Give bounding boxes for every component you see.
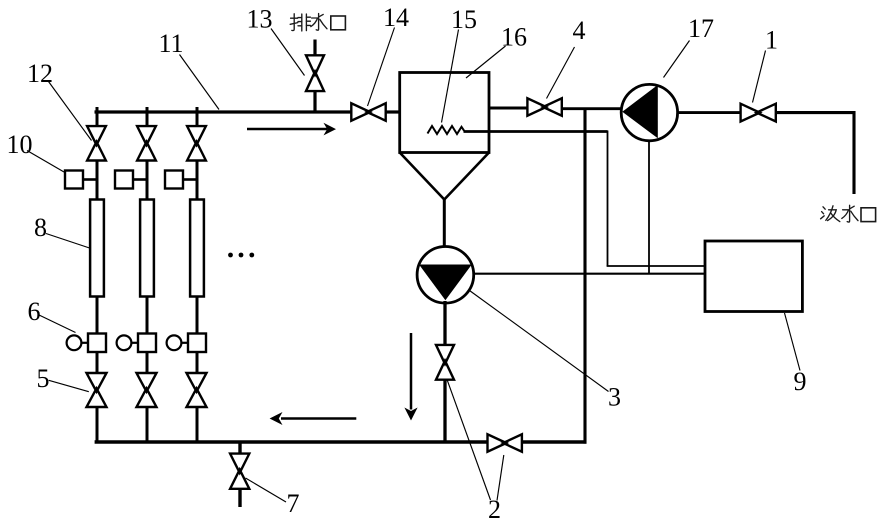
- svg-text:17: 17: [688, 14, 714, 43]
- flow tube 8 (branch 2): [140, 200, 154, 297]
- sensor 6 square (branch 1): [88, 334, 106, 353]
- heater 15 (zigzag element): [428, 126, 465, 134]
- sensor 6 circle (branch 3): [167, 335, 182, 350]
- svg-text:1: 1: [765, 26, 778, 55]
- sensor 6 connector (branch 3): [182, 342, 189, 344]
- svg-text:16: 16: [501, 23, 527, 52]
- wire: branch 1 below sensor: [96, 352, 99, 374]
- label 7 leader: [246, 478, 287, 502]
- wire: valve down to return pipe: [443, 380, 446, 444]
- wire: branch 2 lower drop: [146, 407, 149, 444]
- wire: square 10 connector (branch 2): [133, 178, 147, 181]
- sensor 6 connector (branch 1): [82, 342, 89, 344]
- svg-text:9: 9: [794, 367, 807, 396]
- wire: pump 2 down to valve: [443, 301, 446, 346]
- text: suction port 汲水口: [821, 205, 876, 222]
- wire: main top supply pipe 11: [95, 110, 352, 113]
- svg-text:14: 14: [383, 3, 409, 32]
- text: drain port 排水口: [290, 14, 345, 31]
- label 3 leader: [470, 291, 609, 392]
- wire: drain stub above valve 13: [313, 40, 316, 57]
- label 2 leaders: [447, 380, 491, 501]
- svg-text:15: 15: [451, 5, 477, 34]
- wire: pump 2 control line to controller (lower): [474, 273, 706, 275]
- wire: branch 2 between valve and tube: [146, 160, 149, 200]
- wire: intake pipe to suction port: [776, 113, 854, 194]
- valve 5 (branch 2): [137, 373, 157, 407]
- valve (branch 2 top, item 12): [137, 126, 156, 160]
- valve (branch 3 top, item 12): [187, 126, 206, 160]
- svg-text:11: 11: [159, 29, 184, 58]
- label 6 leader: [38, 315, 76, 333]
- valve 4: [527, 98, 561, 115]
- instrument square 10 (branch 3): [165, 171, 183, 189]
- wire: valve 13 to top pipe: [313, 91, 316, 113]
- sensor 6 connector (branch 2): [132, 342, 139, 344]
- wire: square 10 connector (branch 3): [183, 178, 197, 181]
- wire: branch 3 upper drop: [196, 107, 199, 128]
- valve 1: [741, 104, 776, 122]
- wire: control line into controller (upper): [607, 265, 708, 267]
- wire: branch 2 below tube: [146, 297, 149, 335]
- label 4 leader: [547, 47, 575, 99]
- wire: branch 3 between valve and tube: [196, 160, 199, 200]
- svg-text:6: 6: [28, 297, 41, 326]
- tank 16: [400, 73, 489, 153]
- label 8 leader: [46, 234, 90, 249]
- wire: branch 2 upper drop: [146, 107, 149, 128]
- valve 5 (branch 3): [187, 373, 207, 407]
- label 15 leader: [442, 30, 459, 123]
- ellipsis: more branches: [228, 253, 254, 258]
- svg-text:13: 13: [247, 5, 273, 34]
- wire: valve 4 to pump 17: [562, 107, 623, 110]
- wire: branch 1 between valve and tube: [96, 160, 99, 200]
- label 14 leader: [368, 28, 395, 107]
- wire: pump 17 to valve 1: [678, 111, 741, 114]
- instrument square 10 (branch 2): [115, 171, 133, 189]
- wire: control line riser x607 down: [607, 131, 609, 267]
- label 10 leader: [27, 151, 64, 173]
- wire: heater lead to riser: [464, 130, 608, 133]
- label 17 leader: [664, 41, 690, 78]
- wire: valve 7 branch: [238, 443, 241, 455]
- wire: branch 1 below tube: [96, 297, 99, 335]
- wire: bottom return pipe: [95, 440, 488, 443]
- label 11 leader: [180, 55, 220, 110]
- wire: funnel stem: [443, 198, 446, 249]
- svg-text:4: 4: [573, 16, 586, 45]
- wire: riser x585 (bypass to return): [583, 108, 586, 444]
- label 1 leader: [753, 51, 766, 103]
- valve 7 (bottom drain): [230, 454, 249, 489]
- flow arrow left (bottom): [281, 417, 356, 420]
- sensor 6 circle (branch 2): [117, 335, 132, 350]
- wire: branch 1 lower drop: [96, 407, 99, 444]
- valve 14: [351, 103, 385, 120]
- label 12 leader: [49, 82, 92, 141]
- pump 17 (feed pump): [621, 84, 677, 140]
- svg-text:7: 7: [287, 489, 300, 518]
- sensor 6 square (branch 2): [138, 334, 156, 353]
- label 5 leader: [49, 380, 89, 391]
- svg-text:3: 3: [608, 383, 621, 412]
- wire: branch 2 below sensor: [146, 352, 149, 374]
- funnel under tank: [400, 153, 489, 200]
- wire: tank outlet to valve 4: [489, 107, 528, 110]
- label 9 leader: [785, 313, 801, 371]
- controller box 9: [705, 241, 802, 312]
- valve (branch 1 top, item 12): [87, 126, 106, 160]
- svg-text:8: 8: [34, 213, 47, 242]
- svg-text:10: 10: [7, 130, 33, 159]
- valve 5 (branch 1): [87, 373, 107, 407]
- wire: branch 3 below sensor: [196, 352, 199, 374]
- flow tube 8 (branch 3): [190, 200, 204, 297]
- valve 13 (drain valve): [306, 55, 324, 91]
- flow arrow right (top): [247, 128, 327, 131]
- sensor 6 square (branch 3): [188, 334, 206, 353]
- wire: square 10 connector (branch 1): [83, 178, 97, 181]
- wire: branch 3 below tube: [196, 297, 199, 335]
- valve 2b (horizontal, on return): [488, 434, 522, 451]
- svg-text:5: 5: [37, 364, 50, 393]
- wire: branch 1 upper drop: [96, 107, 99, 128]
- wire: drain stub below valve 7: [238, 488, 241, 507]
- wire: return pipe valve to riser corner: [522, 440, 587, 443]
- valve 2a (vertical, below pump): [436, 345, 454, 380]
- wire: pipe valve 14 to tank 16: [386, 110, 401, 113]
- flow arrow down: [410, 333, 413, 410]
- instrument square 10 (branch 1): [65, 171, 83, 189]
- wire: branch 3 lower drop: [196, 407, 199, 444]
- wire: pump 17 control drop line: [648, 141, 650, 275]
- label 13 leader: [271, 29, 305, 76]
- pump 2 (circulation pump): [417, 246, 474, 303]
- svg-text:2: 2: [488, 495, 501, 523]
- label 16 leader: [466, 46, 506, 78]
- sensor 6 circle (branch 1): [67, 335, 82, 350]
- flow tube 8 (branch 1): [90, 200, 104, 297]
- svg-text:12: 12: [27, 59, 53, 88]
